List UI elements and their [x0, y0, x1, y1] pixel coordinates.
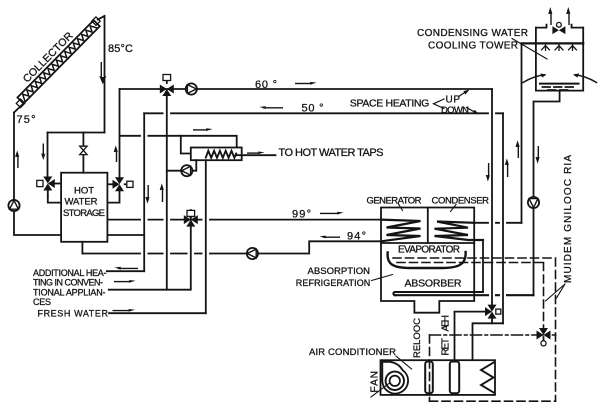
bowtie valve on tank top pipe: [80, 146, 87, 154]
svg-text:AEH: AEH: [441, 315, 452, 332]
pipe: V1 bottom riser down: [166, 96, 168, 290]
94deg line: tank bottom to generator: [81, 242, 83, 254]
UP leader arrow to 60deg line: [459, 91, 468, 97]
appliance text block: [33, 268, 109, 318]
pipe: 94deg line step up into generator: [258, 241, 381, 253]
valve VL left tank 3-way: [37, 177, 61, 203]
tank to riser link y235: [107, 234, 144, 236]
pipe: riser from right valve up to 60deg line: [119, 89, 121, 177]
pipe: left drop to tank valve: [47, 133, 49, 177]
flow arrow right above 60deg line: [295, 82, 317, 85]
svg-text:CONDENSING WATER: CONDENSING WATER: [417, 28, 528, 39]
cooler element: [425, 362, 433, 394]
svg-text:HOT: HOT: [74, 185, 94, 196]
dashed loop valve V7: [537, 328, 551, 346]
svg-text:CONDENSER: CONDENSER: [432, 196, 490, 207]
pipe: 85C horizontal to left drop: [48, 132, 105, 134]
50deg return line: [144, 112, 503, 114]
fresh water line: [109, 312, 206, 314]
bottom dashed of chilled loop: [430, 400, 556, 402]
DOWN leader arrow to 50deg line: [467, 108, 477, 114]
pipe: pump P1 down and into tank left: [14, 211, 61, 235]
arrowheads of UP/DOWN leaders: [463, 90, 479, 115]
bracket for UP/DOWN: [434, 99, 445, 109]
svg-text:MUIDEM GNILOOC RIA: MUIDEM GNILOOC RIA: [563, 155, 574, 283]
pipe: pump P5 down to absorber: [533, 208, 535, 295]
svg-text:94°: 94°: [347, 230, 366, 242]
spray header: [522, 42, 584, 44]
svg-text:AIR CONDITIONER: AIR CONDITIONER: [309, 347, 396, 358]
tower top valve: [552, 26, 565, 34]
tank top pipe with bowtie valve: [82, 133, 84, 173]
reheat chevron coil: [481, 363, 494, 393]
pipe: 85C vertical: [104, 16, 106, 133]
svg-text:UP: UP: [446, 94, 461, 105]
50deg drop right side: [502, 113, 504, 323]
svg-text:EVAPORATOR: EVAPORATOR: [398, 244, 460, 255]
svg-text:TING IN CONVEN-: TING IN CONVEN-: [33, 278, 103, 288]
heat exchanger box: [191, 148, 242, 161]
pipe: riser to tower sprays: [521, 43, 523, 222]
svg-text:50 °: 50 °: [302, 103, 324, 115]
svg-text:DOWN: DOWN: [441, 105, 469, 116]
flow arrow down on 85C pipe: [99, 62, 106, 84]
svg-text:ABSORPTION: ABSORPTION: [308, 266, 371, 277]
valve V2 on 99 line: [184, 210, 198, 227]
fan leader line: [371, 383, 390, 397]
header line y136 to heat exchanger: [120, 136, 237, 148]
svg-text:SPACE HEATING: SPACE HEATING: [350, 97, 430, 109]
pipe: collector top to 85C drop: [98, 16, 105, 20]
chilled medium dashed pair: [393, 258, 556, 401]
tower basin outlet to pump P5: [534, 91, 560, 197]
svg-text:ADDITIONAL HEA-: ADDITIONAL HEA-: [33, 268, 107, 278]
60deg supply line: [120, 88, 493, 90]
flow arrow down beside riser x144: [145, 185, 149, 204]
svg-text:ABSORBER: ABSORBER: [405, 277, 462, 289]
svg-text:99°: 99°: [292, 208, 311, 220]
flow arrow down beside tower return: [536, 146, 540, 164]
svg-text:60 °: 60 °: [255, 79, 277, 91]
valve V1 on 60deg line: [160, 75, 174, 97]
dash-dot top of chilled loop: [430, 334, 556, 336]
generator coil: [381, 220, 421, 242]
svg-text:TIONAL APPLIAN-: TIONAL APPLIAN-: [33, 287, 106, 297]
svg-text:CES: CES: [33, 297, 51, 307]
flow arrow on taps line: [247, 152, 265, 155]
flow arrow down beside left drop: [41, 144, 45, 161]
divider between generator and condenser: [427, 208, 429, 244]
svg-text:FRESH WATER: FRESH WATER: [38, 308, 109, 318]
svg-text:GENERATOR: GENERATOR: [367, 196, 422, 207]
exhaust arrows: [548, 7, 570, 25]
svg-text:WATER: WATER: [65, 197, 98, 208]
spray nozzles: [542, 44, 577, 50]
svg-text:STORAGE: STORAGE: [63, 208, 105, 219]
50 drop corner to heater right pipe: [459, 323, 503, 386]
flow arrow left above 50deg line: [259, 106, 283, 109]
basin: [540, 83, 579, 85]
heater feed from valve: [455, 312, 486, 362]
flow arrow right above 99 line: [320, 212, 344, 215]
flow arrow left above stub A: [114, 267, 138, 270]
svg-text:75°: 75°: [17, 114, 36, 126]
taps line out of exchanger: [236, 154, 275, 156]
exchanger hot outlet, pump P3: [167, 170, 181, 172]
feed drop into exchanger left: [181, 136, 191, 154]
flow arrow up beside left vertical: [15, 150, 19, 168]
pipe: 94deg line left run with crossing gaps: [82, 253, 246, 255]
fan scroll: [382, 362, 408, 394]
condenser leader line: [451, 205, 457, 212]
heater valve V5: [485, 305, 501, 324]
absorber cooling legs: [395, 291, 483, 293]
heater element: [450, 362, 459, 394]
svg-text:RET: RET: [441, 338, 452, 356]
air conditioner unit: [381, 360, 496, 395]
flow arrow up beside V1 riser: [160, 183, 164, 202]
hot water storage tank: [61, 173, 107, 242]
pipe: left vertical down to pump P1: [13, 113, 15, 201]
svg-text:COOLING TOWER: COOLING TOWER: [428, 40, 518, 51]
condenser to tower line: [474, 222, 521, 224]
fresh water riser to exchanger: [205, 160, 207, 313]
flow arrow right above fresh water line: [113, 309, 136, 312]
svg-text:TO HOT WATER TAPS: TO HOT WATER TAPS: [279, 147, 384, 159]
60deg drop right side: [491, 89, 493, 305]
riser x144 down: [143, 113, 145, 271]
flow arrow down beside 60deg drop: [486, 163, 490, 182]
exchanger coil zigzag: [206, 151, 236, 158]
absorption refrigeration leader line: [372, 275, 393, 281]
pump P2 on 60deg line: [186, 83, 197, 94]
riser x144 corner into appliance stub A: [107, 270, 144, 272]
svg-text:RELOOC: RELOOC: [412, 318, 423, 358]
condenser coil: [435, 222, 484, 241]
collector panel: [5, 9, 103, 108]
svg-text:FAN: FAN: [370, 371, 381, 393]
pump P5: [528, 197, 539, 208]
flow arrow up beside riser: [114, 145, 118, 162]
cooler dashed drop through element: [429, 335, 431, 401]
absorption unit box: [381, 208, 474, 313]
pipe: collector bottom to left vertical: [14, 104, 24, 113]
evaporator tray: [388, 252, 466, 268]
pipe: pump P3 outlet elbow to exchanger: [192, 160, 196, 171]
99deg line tank to generator: [107, 219, 381, 221]
V2 bottom stem down to return header: [109, 226, 191, 290]
flow arrow up beside 50deg drop: [505, 158, 509, 177]
generator leader line: [399, 204, 403, 211]
inner line below coils: [381, 242, 474, 244]
cooling tower: [522, 7, 597, 91]
pump P3: [181, 165, 192, 176]
fan impeller ring: [386, 372, 404, 390]
pump P1: [8, 200, 19, 211]
pump P4 on 94 line: [247, 248, 258, 259]
valve VR right tank 3-way: [107, 177, 133, 202]
flow arrow right above return header: [114, 280, 136, 283]
flow arrow up beside tower riser: [516, 140, 520, 158]
flow arrow left above 94 line: [319, 236, 340, 239]
svg-text:85°C: 85°C: [108, 43, 133, 55]
air conditioner leader line: [396, 356, 412, 369]
air inlet swooshes: [523, 75, 545, 83]
flow arrow right above header line: [193, 128, 213, 131]
condenser outlet riser down to absorber: [482, 240, 484, 292]
air cooling medium leader lines: [546, 284, 566, 301]
tower leader line: [512, 39, 547, 60]
svg-text:REFRIGERATION: REFRIGERATION: [296, 278, 371, 288]
